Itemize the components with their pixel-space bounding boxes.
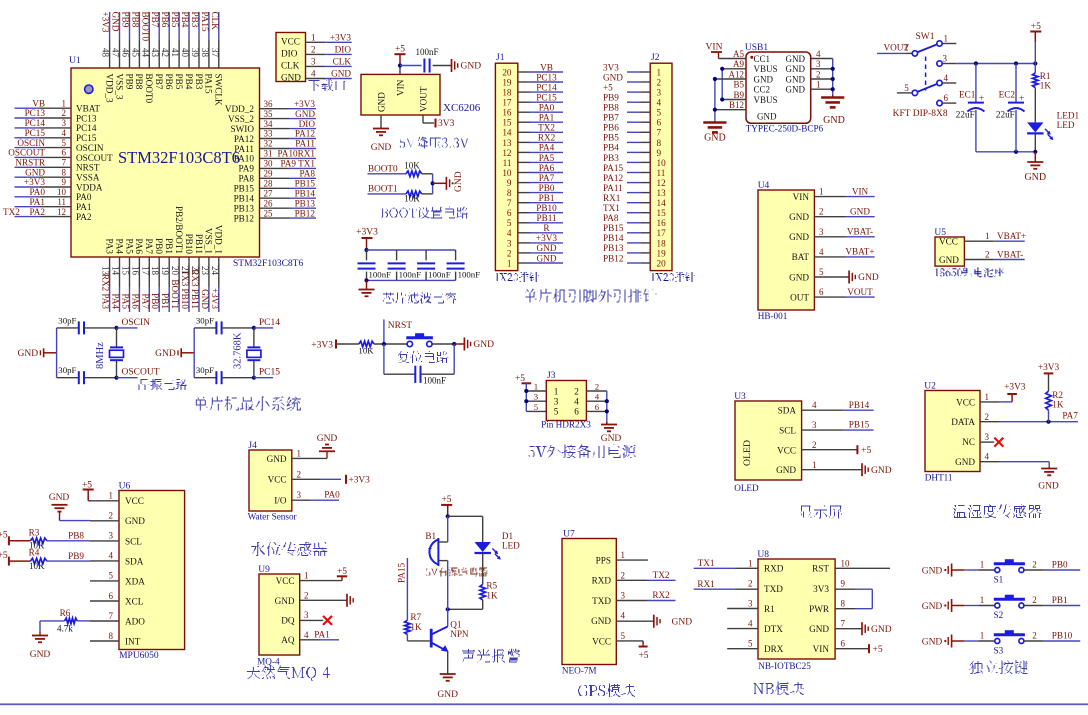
svg-text:39: 39 bbox=[190, 48, 200, 58]
svg-text:R: R bbox=[543, 223, 550, 233]
svg-text:PB7: PB7 bbox=[154, 74, 164, 90]
svg-text:41: 41 bbox=[170, 48, 180, 57]
svg-text:4: 4 bbox=[985, 452, 990, 462]
svg-text:OSCOUT: OSCOUT bbox=[122, 368, 160, 378]
svg-text:PPS: PPS bbox=[596, 556, 611, 566]
svg-text:PB9: PB9 bbox=[603, 93, 619, 103]
svg-text:PB14: PB14 bbox=[603, 233, 624, 243]
svg-text:PB15: PB15 bbox=[295, 179, 316, 189]
svg-text:GND: GND bbox=[871, 466, 892, 476]
svg-text:2: 2 bbox=[819, 207, 824, 217]
svg-text:HB-001: HB-001 bbox=[758, 311, 788, 321]
svg-text:VCC: VCC bbox=[268, 475, 287, 485]
svg-text:PA9: PA9 bbox=[239, 164, 255, 174]
svg-text:5: 5 bbox=[62, 138, 67, 148]
svg-text:NB-IOTBC25: NB-IOTBC25 bbox=[758, 661, 811, 671]
svg-text:PB4: PB4 bbox=[184, 74, 194, 90]
svg-text:GND: GND bbox=[776, 465, 796, 475]
svg-text:PC15: PC15 bbox=[536, 93, 557, 103]
svg-text:+: + bbox=[1019, 94, 1024, 104]
svg-text:DHT11: DHT11 bbox=[925, 473, 953, 483]
svg-text:GND: GND bbox=[200, 289, 210, 309]
svg-text:19: 19 bbox=[502, 78, 512, 88]
svg-text:RX2: RX2 bbox=[538, 133, 556, 143]
svg-text:PB14: PB14 bbox=[849, 400, 870, 410]
svg-text:27: 27 bbox=[264, 188, 274, 198]
svg-text:14: 14 bbox=[502, 128, 512, 138]
svg-text:2: 2 bbox=[311, 45, 316, 55]
svg-text:4: 4 bbox=[304, 630, 309, 640]
svg-text:46: 46 bbox=[121, 48, 131, 58]
svg-text:GND: GND bbox=[858, 273, 879, 283]
svg-text:PB5: PB5 bbox=[174, 74, 184, 90]
svg-text:RX1: RX1 bbox=[603, 193, 621, 203]
svg-text:37: 37 bbox=[210, 48, 220, 58]
svg-text:GND: GND bbox=[267, 454, 287, 464]
svg-text:13: 13 bbox=[657, 188, 667, 198]
svg-text:11: 11 bbox=[657, 168, 666, 178]
svg-text:1K: 1K bbox=[486, 591, 498, 601]
svg-text:45: 45 bbox=[130, 48, 140, 58]
svg-text:PB13: PB13 bbox=[603, 243, 624, 253]
svg-text:A5: A5 bbox=[733, 49, 744, 59]
svg-text:MPU6050: MPU6050 bbox=[119, 651, 159, 661]
svg-text:VDD_3: VDD_3 bbox=[104, 74, 114, 103]
svg-text:PB3: PB3 bbox=[190, 12, 200, 28]
svg-text:4: 4 bbox=[748, 619, 753, 629]
svg-text:2: 2 bbox=[1032, 560, 1037, 570]
svg-text:18: 18 bbox=[657, 238, 667, 248]
svg-text:PA1: PA1 bbox=[314, 629, 330, 639]
svg-text:1K: 1K bbox=[1040, 81, 1052, 91]
svg-text:RX2 PA3: RX2 PA3 bbox=[101, 274, 111, 310]
svg-text:R1: R1 bbox=[764, 604, 775, 614]
svg-text:PB15: PB15 bbox=[849, 420, 870, 430]
svg-text:3: 3 bbox=[985, 432, 990, 442]
svg-text:Q1: Q1 bbox=[450, 619, 462, 629]
svg-text:PA3: PA3 bbox=[104, 239, 114, 255]
svg-text:GND: GND bbox=[601, 434, 622, 444]
svg-text:U2: U2 bbox=[924, 382, 936, 392]
svg-text:6: 6 bbox=[507, 208, 512, 218]
svg-text:VDD_1: VDD_1 bbox=[214, 225, 224, 254]
svg-text:GND: GND bbox=[473, 340, 494, 350]
svg-text:6: 6 bbox=[109, 591, 114, 601]
svg-text:TXD: TXD bbox=[592, 596, 611, 606]
svg-text:GND: GND bbox=[111, 12, 121, 32]
svg-text:RST: RST bbox=[812, 564, 829, 574]
svg-text:1: 1 bbox=[819, 187, 824, 197]
svg-text:RXD: RXD bbox=[592, 576, 612, 586]
svg-text:GND: GND bbox=[437, 690, 458, 700]
svg-text:30pF: 30pF bbox=[196, 365, 214, 375]
svg-text:VCC: VCC bbox=[276, 576, 295, 586]
svg-text:3: 3 bbox=[748, 599, 753, 609]
svg-text:PA0: PA0 bbox=[76, 192, 92, 202]
svg-text:PA5: PA5 bbox=[539, 153, 555, 163]
svg-text:4: 4 bbox=[311, 69, 316, 79]
svg-text:47: 47 bbox=[111, 48, 121, 58]
svg-text:OSCOUT: OSCOUT bbox=[76, 153, 113, 163]
svg-text:5: 5 bbox=[109, 571, 114, 581]
svg-text:PB11: PB11 bbox=[536, 213, 556, 223]
svg-text:2: 2 bbox=[109, 511, 114, 521]
svg-text:U4: U4 bbox=[758, 181, 770, 191]
svg-text:S3: S3 bbox=[994, 645, 1004, 655]
svg-text:PA7: PA7 bbox=[144, 239, 154, 255]
svg-text:DIO: DIO bbox=[281, 49, 298, 59]
svg-text:19: 19 bbox=[657, 248, 667, 258]
svg-text:2: 2 bbox=[304, 590, 309, 600]
svg-text:PA15: PA15 bbox=[200, 12, 210, 32]
svg-text:GND: GND bbox=[850, 207, 870, 217]
svg-text:VDD_2: VDD_2 bbox=[225, 104, 254, 114]
svg-text:32.768K: 32.768K bbox=[233, 332, 244, 369]
svg-text:GND: GND bbox=[591, 616, 611, 626]
svg-text:PA6: PA6 bbox=[539, 163, 555, 173]
svg-text:PA2: PA2 bbox=[30, 207, 46, 217]
svg-text:33: 33 bbox=[264, 129, 274, 139]
svg-text:R6: R6 bbox=[60, 608, 71, 618]
svg-text:PA4: PA4 bbox=[114, 239, 124, 255]
svg-text:PB12: PB12 bbox=[603, 253, 624, 263]
svg-text:1: 1 bbox=[980, 595, 985, 605]
svg-text:GND: GND bbox=[922, 602, 943, 612]
svg-text:5: 5 bbox=[657, 108, 662, 118]
svg-text:SWCLK: SWCLK bbox=[214, 74, 224, 107]
svg-text:+5: +5 bbox=[0, 531, 8, 541]
svg-text:9: 9 bbox=[657, 148, 662, 158]
svg-text:DIO: DIO bbox=[335, 45, 352, 55]
svg-text:1: 1 bbox=[944, 34, 949, 44]
svg-text:6: 6 bbox=[574, 407, 579, 417]
svg-text:PB9: PB9 bbox=[124, 74, 134, 90]
svg-text:PA8: PA8 bbox=[300, 169, 316, 179]
svg-text:6: 6 bbox=[62, 148, 67, 158]
svg-text:VSS_3: VSS_3 bbox=[114, 74, 124, 100]
svg-text:PB6: PB6 bbox=[164, 74, 174, 90]
svg-text:PA5: PA5 bbox=[124, 239, 134, 255]
svg-text:NRST: NRST bbox=[76, 163, 100, 173]
svg-text:VBAT+: VBAT+ bbox=[845, 247, 874, 257]
svg-text:7: 7 bbox=[657, 128, 662, 138]
svg-text:PB1: PB1 bbox=[1052, 595, 1068, 605]
svg-text:4: 4 bbox=[595, 392, 600, 402]
svg-text:1: 1 bbox=[507, 258, 512, 268]
svg-text:U6: U6 bbox=[119, 482, 131, 492]
svg-text:7: 7 bbox=[507, 198, 512, 208]
svg-text:PC14: PC14 bbox=[259, 318, 280, 328]
svg-text:CLK: CLK bbox=[281, 61, 300, 71]
svg-text:B12: B12 bbox=[729, 100, 744, 110]
svg-text:GND: GND bbox=[704, 133, 726, 144]
svg-text:+5: +5 bbox=[395, 45, 405, 55]
svg-text:NEO-7M: NEO-7M bbox=[562, 666, 597, 676]
svg-text:TX2: TX2 bbox=[538, 123, 555, 133]
svg-text:PA6: PA6 bbox=[130, 294, 140, 310]
svg-text:GND: GND bbox=[461, 62, 482, 72]
svg-text:+: + bbox=[428, 543, 433, 553]
svg-text:4: 4 bbox=[819, 247, 824, 257]
svg-text:SCL: SCL bbox=[125, 536, 142, 546]
svg-text:1: 1 bbox=[812, 460, 817, 470]
svg-text:28: 28 bbox=[264, 179, 274, 189]
svg-text:14: 14 bbox=[111, 266, 121, 276]
svg-text:Water Sensor: Water Sensor bbox=[248, 512, 297, 522]
svg-text:GND: GND bbox=[155, 349, 176, 359]
svg-text:17: 17 bbox=[657, 228, 667, 238]
svg-text:U3: U3 bbox=[734, 392, 746, 402]
svg-text:1: 1 bbox=[980, 631, 985, 641]
svg-text:TX3 PB10: TX3 PB10 bbox=[180, 269, 190, 309]
svg-text:1K: 1K bbox=[410, 622, 422, 632]
svg-text:VBUS: VBUS bbox=[754, 64, 778, 74]
svg-text:PB1: PB1 bbox=[160, 293, 170, 309]
svg-text:5: 5 bbox=[507, 218, 512, 228]
svg-text:GND: GND bbox=[30, 650, 51, 660]
svg-text:1: 1 bbox=[62, 98, 67, 108]
svg-text:3: 3 bbox=[812, 420, 817, 430]
svg-text:GND: GND bbox=[603, 72, 623, 82]
svg-text:VCC: VCC bbox=[777, 445, 796, 455]
svg-text:SDA: SDA bbox=[778, 406, 797, 416]
svg-text:3: 3 bbox=[311, 57, 316, 67]
svg-text:PA7: PA7 bbox=[539, 173, 555, 183]
svg-text:1K: 1K bbox=[1052, 400, 1064, 410]
svg-text:3: 3 bbox=[554, 397, 559, 407]
svg-text:1: 1 bbox=[748, 558, 753, 568]
svg-text:8MHz: 8MHz bbox=[95, 342, 106, 369]
svg-text:1: 1 bbox=[534, 381, 538, 391]
svg-text:+: + bbox=[979, 94, 984, 104]
svg-text:PB13: PB13 bbox=[295, 198, 316, 208]
svg-text:22uF: 22uF bbox=[996, 110, 1015, 120]
svg-text:5: 5 bbox=[819, 267, 824, 277]
svg-text:3: 3 bbox=[819, 227, 824, 237]
svg-text:U8: U8 bbox=[757, 550, 769, 560]
svg-text:PB6: PB6 bbox=[603, 123, 619, 133]
svg-text:PB8: PB8 bbox=[68, 531, 84, 541]
svg-text:PB9: PB9 bbox=[121, 12, 131, 28]
svg-text:OLED: OLED bbox=[742, 440, 753, 466]
svg-text:30: 30 bbox=[264, 159, 274, 169]
svg-text:30pF: 30pF bbox=[58, 315, 76, 325]
svg-text:PC14: PC14 bbox=[25, 118, 46, 128]
svg-text:EC2: EC2 bbox=[999, 90, 1016, 100]
svg-text:20: 20 bbox=[502, 67, 512, 77]
svg-text:1: 1 bbox=[980, 560, 985, 570]
svg-text:PB7: PB7 bbox=[150, 12, 160, 28]
svg-text:VSS_2: VSS_2 bbox=[228, 114, 254, 124]
svg-text:OSCIN: OSCIN bbox=[76, 143, 104, 153]
svg-text:U9: U9 bbox=[258, 565, 270, 575]
svg-text:+5: +5 bbox=[638, 651, 648, 661]
svg-text:GND: GND bbox=[786, 85, 806, 95]
svg-text:+3V3: +3V3 bbox=[294, 99, 315, 109]
svg-text:GND: GND bbox=[125, 516, 145, 526]
svg-text:+3V3: +3V3 bbox=[1004, 383, 1026, 393]
svg-text:TX1: TX1 bbox=[698, 558, 715, 568]
svg-text:PA8: PA8 bbox=[603, 213, 619, 223]
svg-text:PA2: PA2 bbox=[76, 212, 92, 222]
svg-text:LED1: LED1 bbox=[1057, 111, 1080, 121]
svg-text:+3V3: +3V3 bbox=[356, 228, 378, 238]
svg-text:OSCIN: OSCIN bbox=[122, 318, 151, 328]
svg-text:A9: A9 bbox=[733, 59, 744, 69]
svg-text:PB8: PB8 bbox=[130, 12, 140, 28]
svg-text:10K: 10K bbox=[404, 194, 420, 204]
svg-text:PA7: PA7 bbox=[140, 294, 150, 310]
svg-text:1: 1 bbox=[109, 491, 114, 501]
svg-text:+5: +5 bbox=[0, 551, 8, 561]
svg-text:TX2: TX2 bbox=[3, 207, 20, 217]
svg-text:NC: NC bbox=[962, 437, 975, 447]
svg-text:VIN: VIN bbox=[852, 186, 869, 196]
svg-text:PC14: PC14 bbox=[76, 123, 97, 133]
svg-text:1: 1 bbox=[621, 550, 626, 560]
svg-text:3V3: 3V3 bbox=[813, 584, 829, 594]
svg-text:VDDA: VDDA bbox=[76, 182, 103, 192]
svg-text:2: 2 bbox=[1032, 631, 1037, 641]
svg-text:5: 5 bbox=[534, 402, 539, 412]
svg-text:PB12: PB12 bbox=[234, 213, 255, 223]
svg-text:NPN: NPN bbox=[450, 629, 469, 639]
svg-text:J2: J2 bbox=[651, 53, 660, 63]
svg-text:3V3: 3V3 bbox=[438, 119, 455, 129]
svg-text:10: 10 bbox=[657, 158, 667, 168]
svg-text:GND: GND bbox=[786, 54, 806, 64]
svg-text:SWIO: SWIO bbox=[231, 124, 255, 134]
svg-text:VSSA: VSSA bbox=[76, 173, 100, 183]
svg-text:CC1: CC1 bbox=[754, 54, 771, 64]
svg-text:1: 1 bbox=[985, 231, 990, 241]
svg-text:VCC: VCC bbox=[956, 397, 975, 407]
svg-text:13: 13 bbox=[502, 138, 512, 148]
svg-text:PA5: PA5 bbox=[121, 294, 131, 310]
svg-text:MQ-4: MQ-4 bbox=[257, 657, 280, 667]
svg-text:6: 6 bbox=[819, 287, 824, 297]
svg-text:15: 15 bbox=[121, 266, 131, 276]
svg-text:9: 9 bbox=[507, 178, 512, 188]
svg-text:PB5: PB5 bbox=[603, 133, 619, 143]
svg-text:3: 3 bbox=[62, 118, 67, 128]
svg-text:AQ: AQ bbox=[281, 635, 295, 645]
svg-text:4: 4 bbox=[62, 128, 67, 138]
svg-text:LED: LED bbox=[502, 541, 520, 551]
svg-text:100nF: 100nF bbox=[399, 270, 422, 280]
svg-text:5: 5 bbox=[554, 407, 559, 417]
svg-text:+3V3: +3V3 bbox=[349, 476, 371, 486]
svg-text:19: 19 bbox=[160, 266, 170, 276]
svg-text:+3V3: +3V3 bbox=[311, 340, 333, 350]
svg-text:R5: R5 bbox=[486, 580, 497, 590]
svg-text:GND: GND bbox=[786, 64, 806, 74]
svg-text:6: 6 bbox=[657, 118, 662, 128]
svg-text:3: 3 bbox=[816, 59, 821, 69]
svg-text:BOOT0: BOOT0 bbox=[140, 12, 150, 42]
svg-text:GND: GND bbox=[789, 232, 809, 242]
svg-text:RXD: RXD bbox=[764, 564, 784, 574]
svg-text:4: 4 bbox=[507, 228, 512, 238]
svg-text:PB0: PB0 bbox=[539, 183, 555, 193]
svg-text:J4: J4 bbox=[248, 441, 257, 451]
svg-text:S2: S2 bbox=[994, 610, 1004, 620]
svg-text:GND: GND bbox=[789, 212, 809, 222]
svg-text:2: 2 bbox=[657, 78, 662, 88]
svg-text:PA15: PA15 bbox=[204, 74, 214, 94]
svg-text:5: 5 bbox=[621, 631, 626, 641]
svg-text:+3V3: +3V3 bbox=[536, 233, 557, 243]
svg-text:PB10: PB10 bbox=[184, 234, 194, 255]
svg-text:BOOT1: BOOT1 bbox=[170, 279, 180, 309]
svg-text:6: 6 bbox=[841, 639, 846, 649]
svg-text:18: 18 bbox=[150, 266, 160, 276]
svg-text:VOUT: VOUT bbox=[847, 287, 873, 297]
svg-text:VBAT+: VBAT+ bbox=[997, 231, 1026, 241]
svg-text:3V3: 3V3 bbox=[603, 62, 619, 72]
svg-text:GND: GND bbox=[537, 253, 557, 263]
svg-text:GND: GND bbox=[295, 109, 315, 119]
svg-text:PB4: PB4 bbox=[603, 143, 619, 153]
svg-text:+3V3: +3V3 bbox=[210, 288, 220, 309]
svg-text:USB1: USB1 bbox=[745, 43, 768, 53]
svg-text:2: 2 bbox=[748, 578, 753, 588]
svg-text:PB5: PB5 bbox=[170, 12, 180, 28]
svg-text:U7: U7 bbox=[563, 530, 575, 540]
svg-text:43: 43 bbox=[150, 48, 160, 58]
svg-text:29: 29 bbox=[264, 169, 274, 179]
svg-text:+5: +5 bbox=[861, 446, 871, 456]
svg-text:10K: 10K bbox=[404, 161, 420, 171]
svg-text:DQ: DQ bbox=[281, 616, 295, 626]
svg-text:18: 18 bbox=[502, 88, 512, 98]
svg-text:GND: GND bbox=[672, 617, 693, 627]
svg-text:CC2: CC2 bbox=[754, 85, 771, 95]
svg-text:PA12: PA12 bbox=[234, 134, 254, 144]
svg-text:PB15: PB15 bbox=[603, 223, 624, 233]
svg-text:1: 1 bbox=[985, 392, 990, 402]
svg-text:17: 17 bbox=[140, 266, 150, 276]
svg-text:GND: GND bbox=[809, 624, 829, 634]
svg-text:PA0: PA0 bbox=[324, 490, 340, 500]
svg-text:VBUS: VBUS bbox=[754, 95, 778, 105]
svg-text:1: 1 bbox=[554, 386, 559, 396]
svg-text:OLED: OLED bbox=[734, 483, 759, 493]
svg-text:DIO: DIO bbox=[299, 119, 316, 129]
svg-text:6: 6 bbox=[944, 93, 949, 103]
svg-text:STM32F103C8T6: STM32F103C8T6 bbox=[233, 259, 303, 269]
svg-text:PA11: PA11 bbox=[603, 183, 623, 193]
svg-text:GND: GND bbox=[1038, 482, 1059, 492]
svg-text:1: 1 bbox=[297, 448, 302, 458]
svg-text:D1: D1 bbox=[502, 531, 514, 541]
svg-text:PB10: PB10 bbox=[536, 203, 557, 213]
svg-text:CLK: CLK bbox=[333, 57, 352, 67]
svg-text:10: 10 bbox=[57, 187, 67, 197]
svg-text:100nF: 100nF bbox=[428, 270, 451, 280]
svg-text:3: 3 bbox=[534, 392, 539, 402]
svg-text:+3V3: +3V3 bbox=[330, 33, 351, 43]
svg-text:VCC: VCC bbox=[939, 237, 958, 247]
svg-text:PC15: PC15 bbox=[76, 133, 97, 143]
svg-text:2: 2 bbox=[574, 386, 579, 396]
svg-text:5: 5 bbox=[748, 639, 753, 649]
svg-text:GND: GND bbox=[331, 69, 351, 79]
svg-text:4: 4 bbox=[109, 551, 114, 561]
svg-text:20: 20 bbox=[170, 266, 180, 276]
svg-text:SDA: SDA bbox=[125, 556, 144, 566]
svg-text:OUT: OUT bbox=[790, 292, 809, 302]
